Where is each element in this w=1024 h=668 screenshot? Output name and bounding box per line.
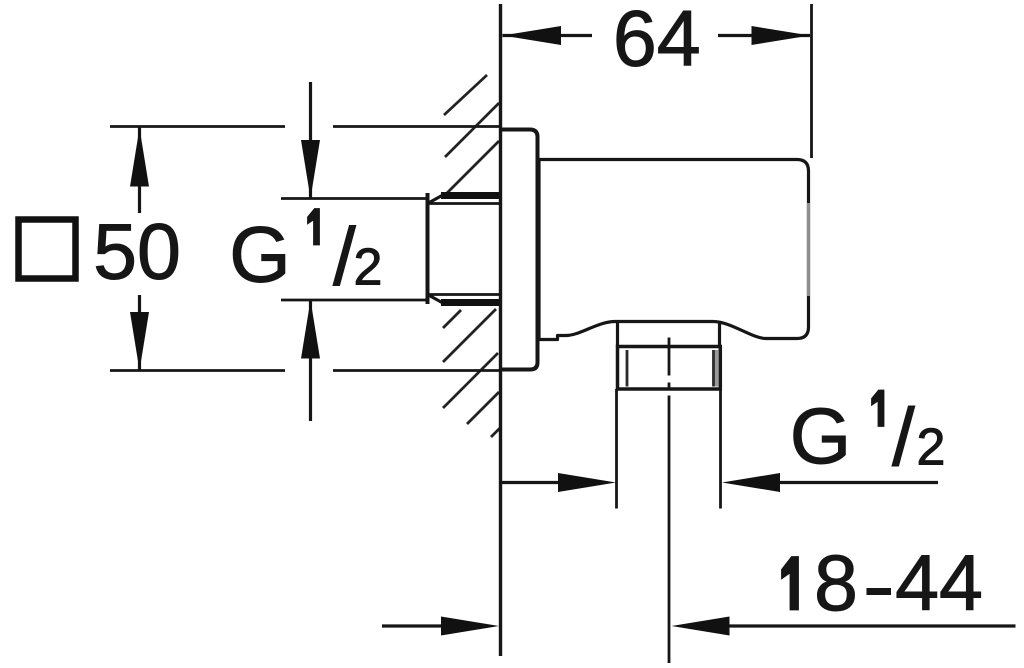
inlet G1/2 dimension extension lines	[281, 199, 428, 301]
dimension text 64	[613, 0, 701, 83]
svg-text:/: /	[892, 392, 915, 483]
outlet G1/2 dimension line and arrows	[501, 473, 938, 492]
outlet thread label G 1/2	[790, 390, 946, 483]
inlet thread label G 1/2	[229, 209, 382, 303]
outlet nut	[618, 347, 721, 390]
svg-text:G: G	[790, 391, 851, 480]
dimension 50 extension lines	[110, 127, 500, 371]
wall flange	[499, 130, 538, 370]
dimension 64 lines and arrows	[503, 26, 811, 45]
inlet G1/2 dimension line and arrows	[301, 82, 320, 421]
main body	[539, 160, 809, 340]
outlet neck	[618, 322, 720, 347]
svg-text:2: 2	[354, 239, 383, 297]
wall line	[499, 4, 502, 656]
centerline of outlet	[668, 338, 671, 664]
dimension text 18-44	[782, 538, 983, 627]
svg-text:8: 8	[814, 538, 858, 627]
svg-text:G: G	[229, 210, 290, 299]
dimension 64 extension line right	[810, 4, 813, 158]
rear inlet thread G1/2 (behind wall)	[428, 193, 501, 304]
svg-text:2: 2	[917, 419, 946, 477]
dimension 50 line and arrows	[130, 128, 149, 371]
dimension text 50	[93, 207, 181, 296]
extension lines below nut	[617, 389, 721, 509]
square symbol	[19, 220, 76, 279]
dimension 18-44 line and arrows	[382, 617, 1016, 636]
svg-text:50: 50	[93, 207, 181, 296]
svg-text:64: 64	[613, 0, 701, 83]
wall hatching top	[444, 75, 499, 194]
svg-text:44: 44	[895, 538, 983, 627]
wall hatching bottom	[443, 309, 501, 437]
